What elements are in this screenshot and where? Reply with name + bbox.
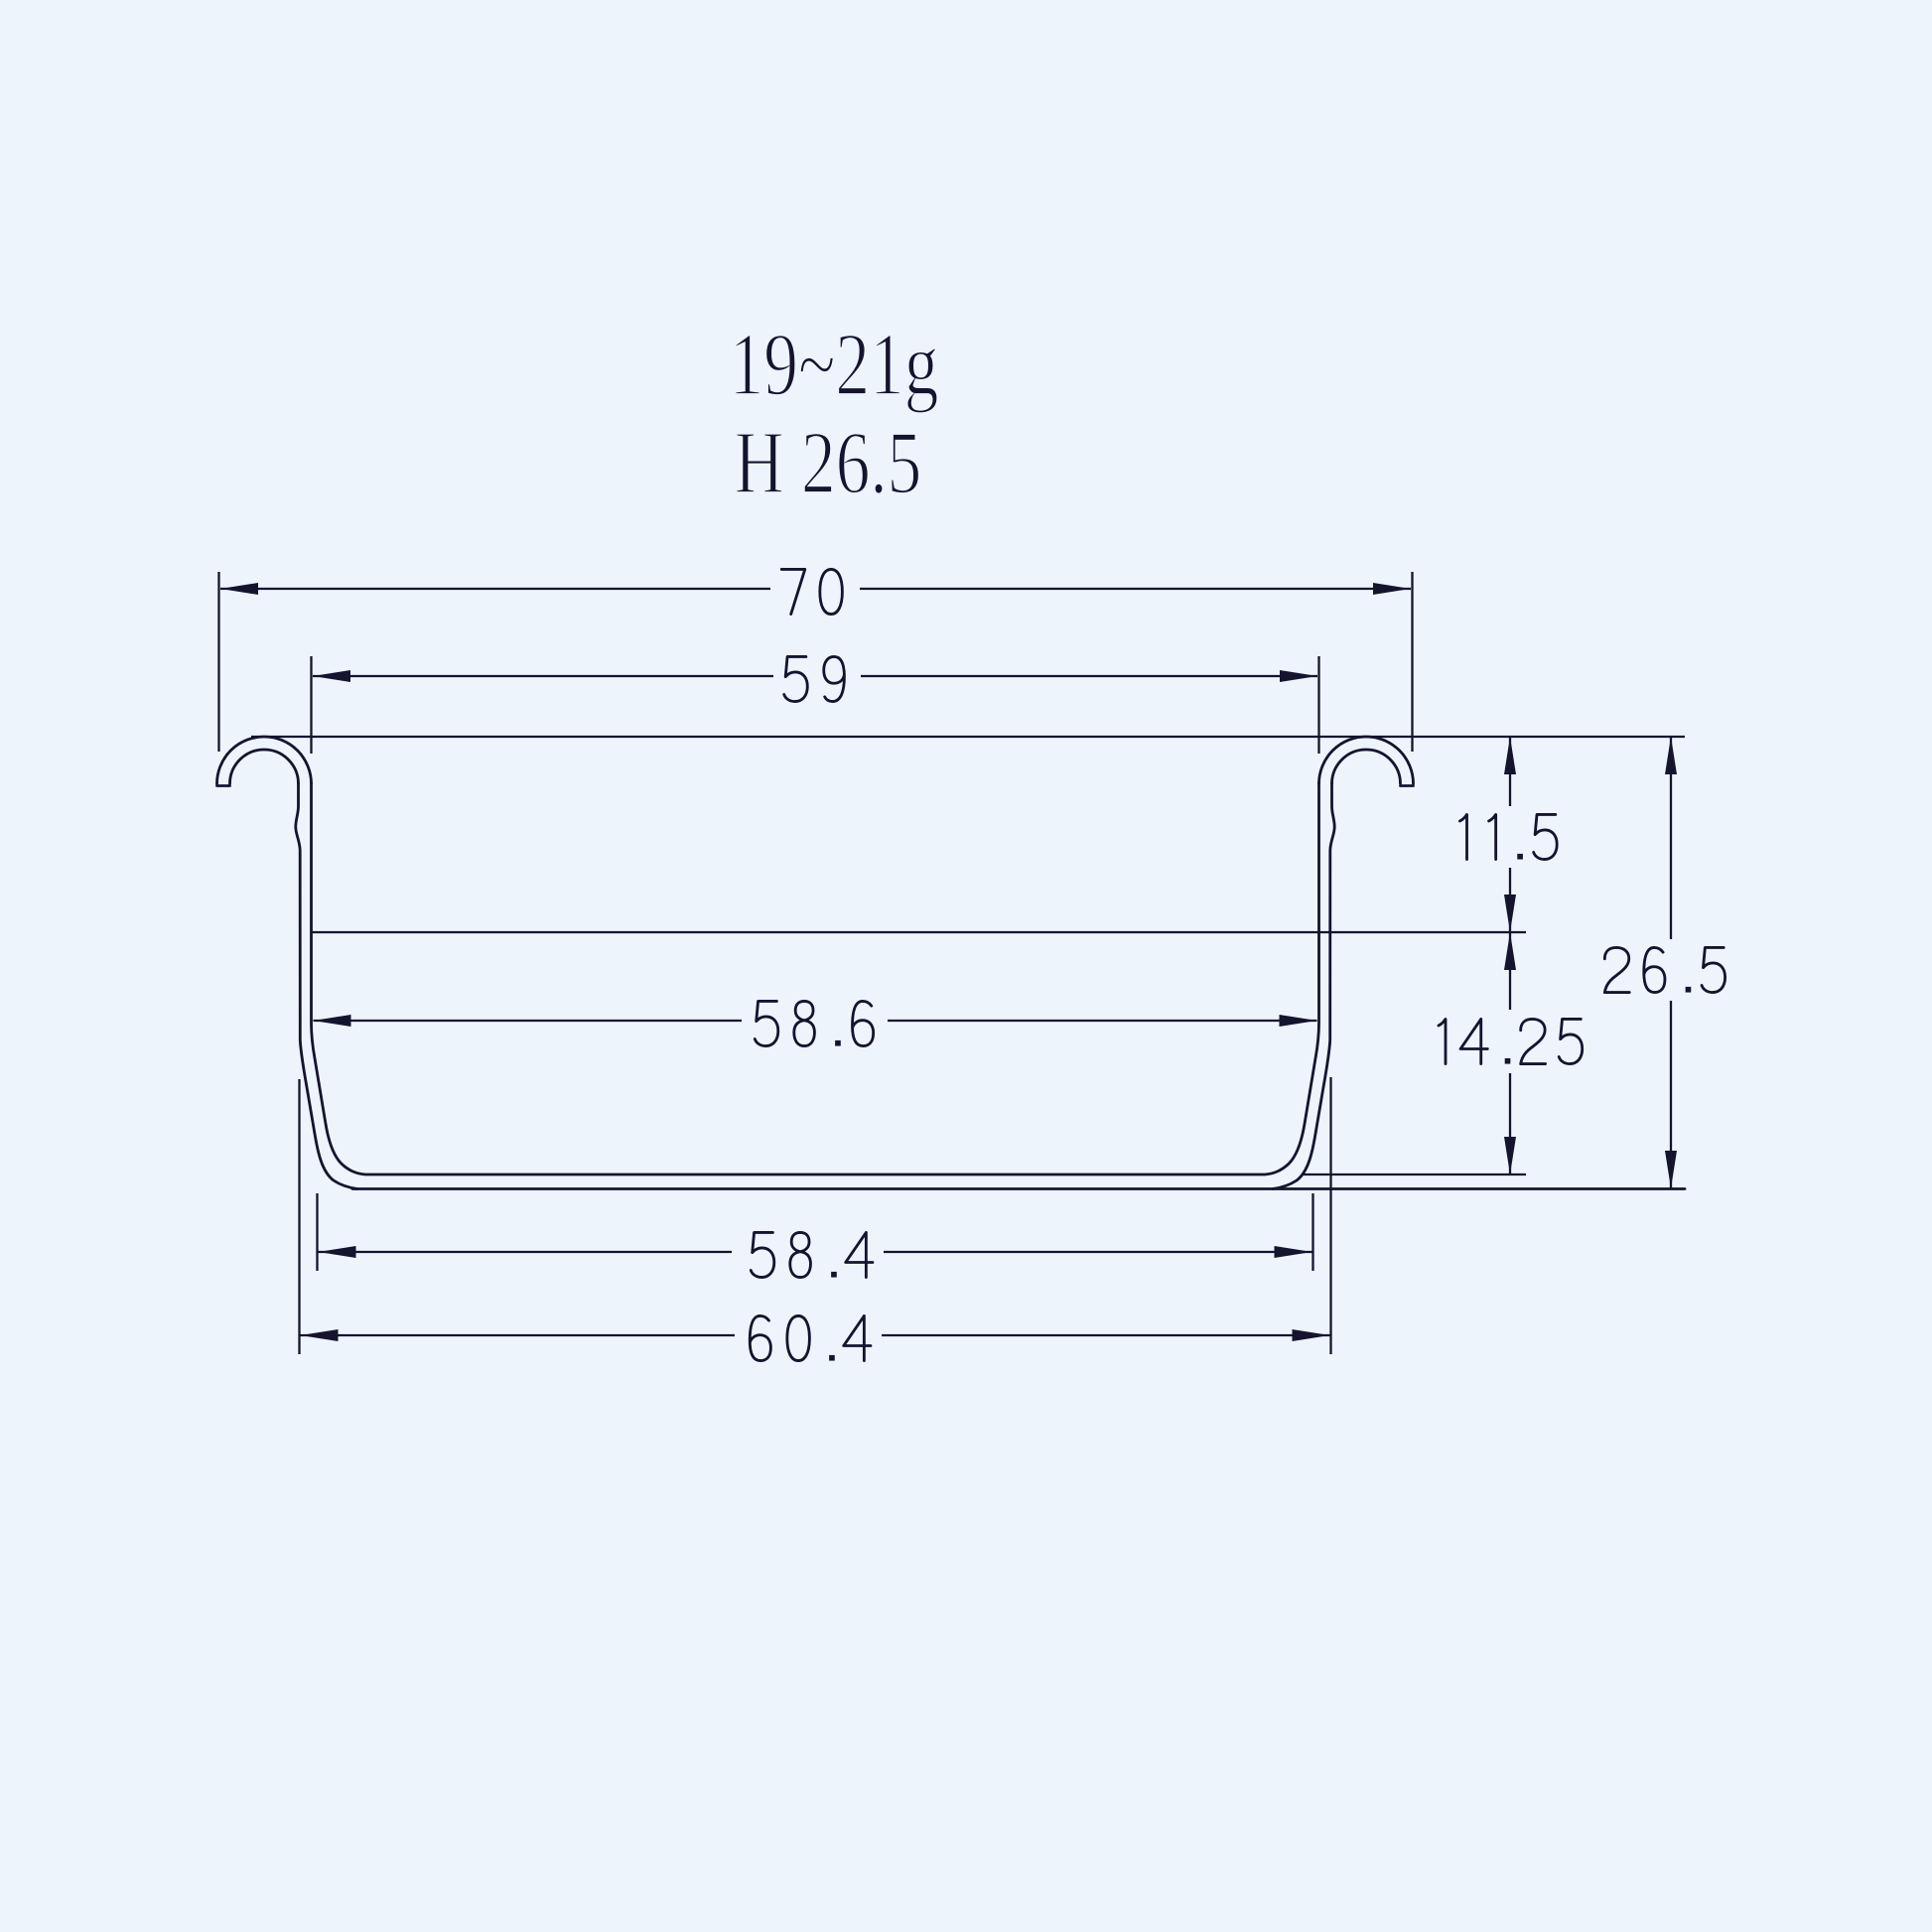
svg-text:19~21g: 19~21g (730, 315, 939, 414)
svg-text:H 26.5: H 26.5 (735, 413, 922, 512)
